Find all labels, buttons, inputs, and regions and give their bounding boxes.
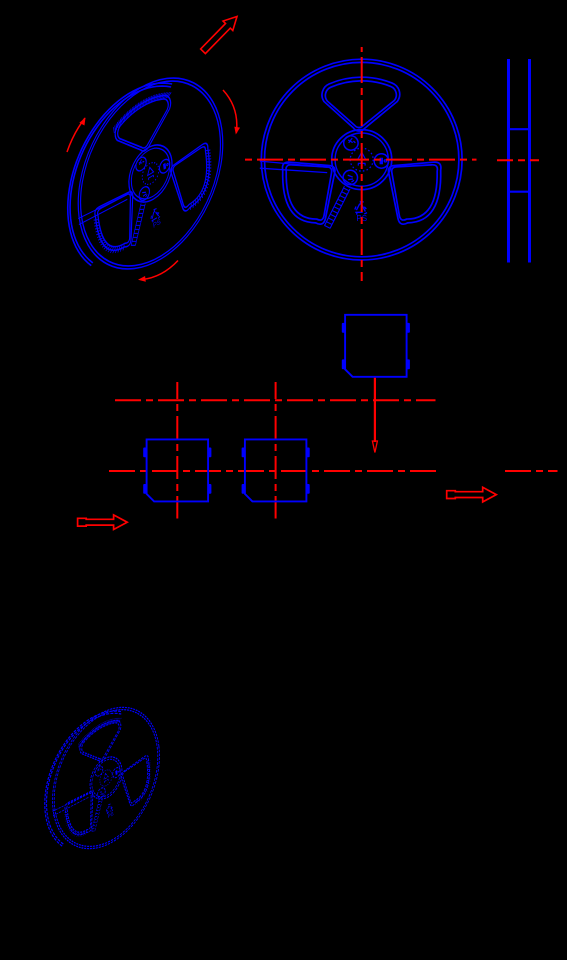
side view flanges	[509, 59, 530, 263]
front view horizontal centerline	[243, 159, 477, 161]
rotation arrow right	[223, 90, 237, 133]
pocket centerline 2	[275, 382, 277, 519]
tape feed centerline upper	[115, 399, 436, 401]
side view centerline	[497, 159, 539, 161]
component leads	[342, 323, 345, 333]
reel front flange (isometric)	[67, 45, 233, 302]
placement leader arrow	[374, 378, 376, 442]
side view hub lines	[509, 129, 530, 192]
component body outline	[147, 439, 209, 501]
isometric reel view	[67, 45, 233, 302]
feed direction arrow left	[78, 515, 128, 530]
small phantom reel view	[44, 683, 167, 873]
front view vertical centerline	[361, 47, 363, 281]
rotation arrow left	[67, 118, 85, 152]
pocket centerline 1	[176, 382, 178, 519]
rotation arrow bottom	[142, 261, 178, 280]
reel back flange arc (isometric)	[68, 83, 172, 266]
window edge hatching	[83, 66, 216, 265]
component leads	[242, 448, 245, 458]
component body outline	[245, 439, 307, 501]
component body outline	[345, 315, 407, 377]
component leads	[143, 448, 146, 458]
tape feed centerline lower	[109, 470, 558, 472]
front reel view	[260, 59, 462, 260]
unwind direction arrow	[201, 17, 237, 54]
feed direction arrow right	[447, 487, 497, 502]
